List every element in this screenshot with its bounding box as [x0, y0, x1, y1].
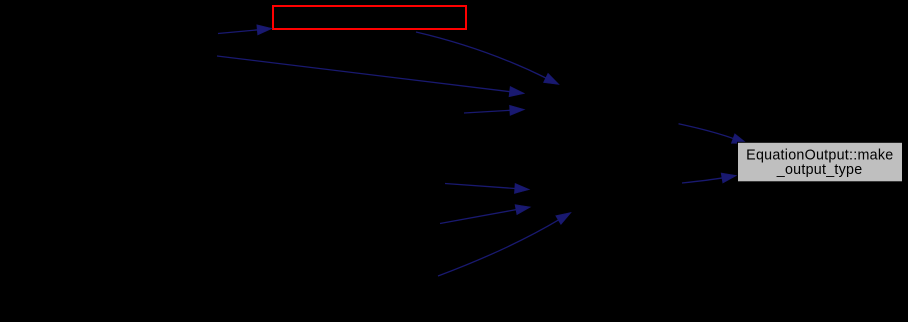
- edge F2 -> node2: [440, 205, 531, 224]
- edge F3 -> node2: [438, 213, 571, 277]
- node EquationOutput::make_output_type: [738, 142, 903, 182]
- svg-text:_output_type: _output_type: [776, 162, 863, 178]
- edge D -> node1: [464, 105, 525, 115]
- current node (red border, highlighted): [273, 6, 466, 29]
- edge C -> node1: [217, 56, 524, 97]
- edge B red node -> node1: [416, 32, 559, 85]
- edge E node1 -> make_output_type: [679, 124, 748, 144]
- edge G node2 -> make_output_type: [682, 173, 737, 183]
- edge F1 -> node2: [445, 183, 530, 193]
- edge A -> red node: [218, 25, 272, 35]
